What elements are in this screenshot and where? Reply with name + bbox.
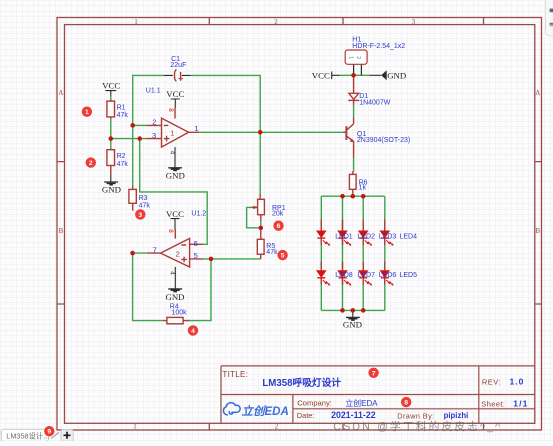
svg-text:3: 3 — [412, 18, 416, 26]
svg-text:47k: 47k — [117, 161, 129, 168]
svg-text:47k: 47k — [139, 202, 151, 209]
svg-text:1: 1 — [134, 18, 138, 26]
svg-text:REV:: REV: — [482, 377, 501, 386]
svg-text:47k: 47k — [117, 112, 129, 119]
svg-text:VCC: VCC — [102, 81, 120, 91]
svg-text:立创EDA: 立创EDA — [242, 404, 289, 418]
svg-text:4: 4 — [168, 271, 175, 275]
svg-text:1N4007W: 1N4007W — [359, 100, 391, 107]
svg-text:5: 5 — [281, 253, 285, 260]
svg-text:A: A — [535, 89, 540, 97]
svg-text:Date:: Date: — [297, 411, 314, 420]
svg-text:B: B — [535, 227, 540, 235]
svg-text:GND: GND — [165, 292, 184, 302]
svg-text:1: 1 — [347, 56, 353, 59]
svg-text:2: 2 — [89, 160, 93, 167]
svg-text:B: B — [59, 227, 64, 235]
svg-text:CSDN @学工科的皮皮志^_^: CSDN @学工科的皮皮志^_^ — [333, 419, 502, 433]
svg-text:GND: GND — [102, 185, 121, 195]
svg-text:2: 2 — [275, 422, 279, 430]
svg-text:LED4: LED4 — [400, 233, 418, 240]
svg-text:LED8: LED8 — [335, 272, 353, 279]
svg-text:GND: GND — [387, 71, 406, 81]
svg-text:4: 4 — [191, 328, 195, 335]
svg-text:LED2: LED2 — [358, 233, 376, 240]
svg-text:1.0: 1.0 — [510, 376, 525, 386]
svg-text:pipizhi: pipizhi — [444, 411, 469, 420]
svg-text:2: 2 — [176, 250, 180, 259]
svg-text:8: 8 — [404, 400, 408, 407]
svg-text:HDR-F-2.54_1x2: HDR-F-2.54_1x2 — [352, 43, 405, 50]
svg-text:5: 5 — [194, 251, 198, 260]
svg-text:2: 2 — [152, 118, 156, 127]
svg-text:8: 8 — [167, 108, 174, 112]
svg-text:R1: R1 — [117, 105, 126, 112]
svg-text:1: 1 — [170, 129, 174, 138]
svg-text:1k: 1k — [359, 185, 367, 192]
svg-text:3: 3 — [152, 131, 156, 140]
svg-text:LED5: LED5 — [400, 272, 418, 279]
svg-text:47k: 47k — [266, 249, 278, 256]
svg-text:3: 3 — [138, 212, 142, 219]
svg-text:2021-11-22: 2021-11-22 — [331, 410, 376, 420]
svg-text:2: 2 — [355, 56, 361, 59]
svg-text:LED6: LED6 — [379, 272, 397, 279]
svg-text:LED7: LED7 — [358, 272, 376, 279]
svg-text:R2: R2 — [117, 153, 126, 160]
svg-text:GND: GND — [166, 171, 185, 181]
svg-text:R3: R3 — [139, 195, 148, 202]
svg-text:Company:: Company: — [297, 399, 332, 408]
svg-text:VCC: VCC — [166, 89, 184, 99]
svg-text:6: 6 — [277, 223, 281, 230]
svg-text:VCC: VCC — [166, 209, 184, 219]
svg-text:LM358设计...: LM358设计... — [6, 431, 49, 440]
svg-text:2: 2 — [274, 18, 278, 26]
svg-text:TITLE:: TITLE: — [222, 370, 248, 379]
svg-text:LED3: LED3 — [379, 233, 397, 240]
svg-text:22uF: 22uF — [170, 62, 186, 69]
svg-text:U1.2: U1.2 — [191, 211, 206, 218]
svg-text:2N3904(SOT-23): 2N3904(SOT-23) — [357, 137, 410, 144]
svg-text:LM358呼吸灯设计: LM358呼吸灯设计 — [262, 376, 341, 389]
svg-text:6: 6 — [194, 239, 198, 248]
svg-text:1/1: 1/1 — [513, 398, 528, 408]
svg-text:7: 7 — [153, 245, 157, 254]
svg-text:A: A — [58, 89, 63, 97]
svg-text:Sheet:: Sheet: — [481, 399, 505, 408]
svg-text:8: 8 — [167, 229, 174, 233]
svg-text:LED1: LED1 — [335, 233, 353, 240]
svg-text:1: 1 — [133, 422, 137, 430]
svg-text:VCC: VCC — [312, 71, 330, 81]
svg-text:9: 9 — [47, 429, 51, 436]
svg-text:Drawn By:: Drawn By: — [397, 411, 434, 420]
svg-text:1: 1 — [194, 124, 198, 133]
svg-text:GND: GND — [343, 319, 362, 329]
svg-text:20k: 20k — [272, 211, 284, 218]
svg-text:1: 1 — [85, 109, 89, 116]
svg-text:7: 7 — [372, 370, 376, 377]
svg-text:100k: 100k — [172, 309, 188, 316]
svg-text:立创EDA: 立创EDA — [345, 398, 378, 408]
svg-text:U1.1: U1.1 — [146, 88, 161, 95]
